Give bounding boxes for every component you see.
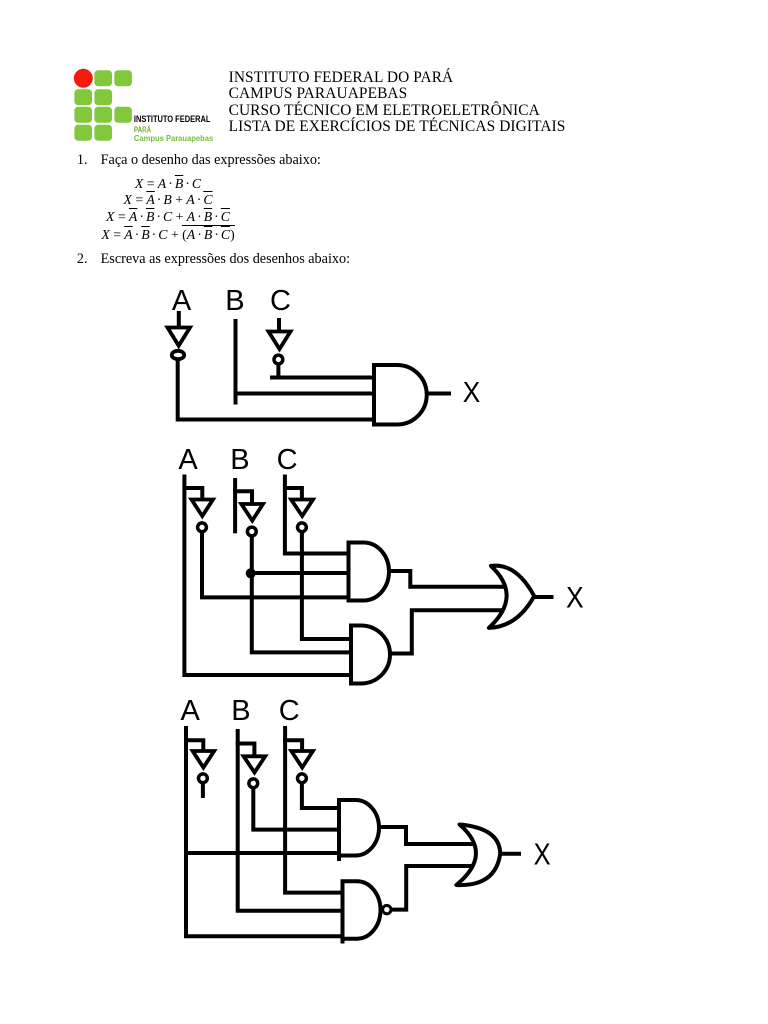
AND gate U2A — [349, 543, 390, 601]
wire A vertical stub — [177, 311, 181, 328]
inverter C3 bubble — [298, 774, 307, 783]
wire C vertical stub — [277, 318, 281, 330]
inverter A bubble — [172, 351, 184, 359]
wire A branch to inverter — [184, 740, 203, 750]
wire A vertical and bottom run to NAND input 3 — [186, 726, 345, 936]
wire C vertical to AND1 input 1 — [285, 475, 351, 554]
wire AND2 output to OR — [390, 610, 507, 653]
wire NOT-B down to AND2 input 2 — [252, 537, 353, 653]
inverter A2 bubble — [198, 523, 207, 532]
wire NOT-A to AND1 input 3 — [202, 533, 351, 598]
inverter C — [269, 332, 291, 350]
wire AND1 output to OR — [389, 571, 507, 587]
AND gate U4 — [339, 800, 379, 856]
wire NOT-C down to AND2 input 1 — [302, 533, 353, 640]
wire AND3 output to OR — [380, 827, 479, 844]
inverter B2 — [241, 504, 263, 521]
svg-text:C: C — [270, 285, 291, 317]
wire A output to AND bottom input — [178, 361, 376, 420]
wire X output — [534, 595, 554, 599]
inverter B3 bubble — [249, 779, 258, 788]
wire C branch to inverter — [283, 488, 302, 499]
wire A branch to inverter — [183, 488, 203, 499]
inverter C3 — [291, 751, 313, 768]
equations — [0, 176, 336, 192]
wire B branch to inverter — [236, 744, 255, 756]
wire B to AND middle input — [234, 319, 377, 405]
svg-text:B: B — [231, 695, 250, 727]
svg-text:B: B — [230, 444, 249, 476]
inverter B2 bubble — [247, 527, 256, 536]
junction dot on NOT-B — [246, 568, 256, 578]
svg-text:X: X — [463, 377, 481, 409]
svg-text:X: X — [566, 582, 584, 615]
OR gate U3 — [489, 566, 534, 628]
svg-text:A: A — [172, 285, 192, 317]
wire B vertical — [233, 478, 237, 533]
wire NOT-B to AND3 input 2 — [253, 789, 343, 830]
item 1 — [77, 152, 321, 169]
wire A tap to AND3 input 3 — [186, 851, 343, 855]
inverter C2 bubble — [298, 523, 307, 532]
AND gate U2B — [351, 626, 390, 684]
wire NOT-A stub — [201, 784, 205, 799]
wire B vertical to NAND input 2 — [238, 729, 345, 911]
svg-text:A: A — [178, 444, 198, 476]
inverter A3 bubble — [199, 774, 208, 783]
AND gate U1 — [374, 365, 427, 425]
NAND output bubble — [383, 905, 391, 913]
wire NAND output to OR — [392, 866, 477, 910]
wire A vertical and bottom run to AND2 — [184, 475, 353, 676]
header text — [229, 70, 566, 136]
wire NOT-C to AND3 input 1 — [302, 784, 343, 809]
item 2 — [77, 251, 350, 268]
inverter C2 — [291, 500, 313, 517]
wire X output — [427, 392, 451, 396]
svg-text:X: X — [534, 836, 551, 871]
inverter C bubble — [274, 355, 283, 364]
inverter A2 — [192, 500, 214, 517]
wire X output — [499, 852, 521, 856]
svg-text:A: A — [181, 695, 201, 727]
svg-text:C: C — [277, 444, 298, 476]
inverter A — [168, 328, 191, 346]
OR gate U6 — [456, 825, 500, 886]
inverter B3 — [244, 756, 266, 772]
inverter A3 — [193, 751, 215, 768]
wire NOT-B tap to AND1 input 2 — [250, 571, 350, 575]
wire B branch to inverter — [233, 491, 252, 503]
svg-text:C: C — [279, 695, 300, 727]
wire C branch to inverter — [283, 740, 302, 750]
NAND gate U5 — [343, 881, 381, 938]
wire C vertical to NAND input 1 — [285, 726, 345, 893]
svg-text:B: B — [225, 285, 244, 317]
wire C to AND top input — [270, 364, 376, 378]
